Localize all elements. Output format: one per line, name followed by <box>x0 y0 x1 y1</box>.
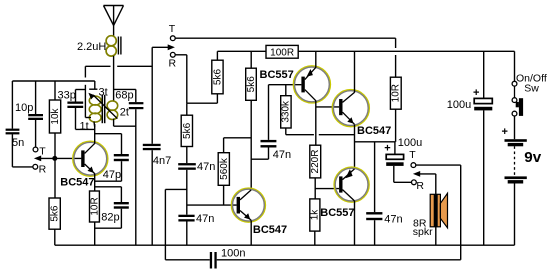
svg-text:560k: 560k <box>219 157 230 180</box>
resistor 10R (emitter) <box>89 191 100 245</box>
svg-text:4n7: 4n7 <box>153 155 171 167</box>
svg-text:BC547: BC547 <box>357 125 391 137</box>
svg-text:2.2uH: 2.2uH <box>77 41 106 53</box>
capacitor 47n (fourth) <box>366 142 402 245</box>
wire Q2 emitter to ground rail <box>250 221 252 246</box>
switch pole arrow (left changeover) <box>34 156 82 162</box>
svg-text:1t: 1t <box>80 121 89 133</box>
resistor 10R (output) <box>390 77 401 142</box>
svg-text:330k: 330k <box>281 100 292 123</box>
capacitor 47n (second) <box>178 213 214 245</box>
svg-text:2t: 2t <box>120 107 129 119</box>
svg-text:+: + <box>502 126 508 138</box>
svg-text:9v: 9v <box>524 149 541 166</box>
svg-text:47p: 47p <box>103 169 121 181</box>
wire Q3 emitter up to V+ rail <box>315 51 317 67</box>
svg-text:5k6: 5k6 <box>212 69 223 86</box>
resistor 5k6 (left bottom) <box>49 198 61 245</box>
wire Q1 emitter down to 10R <box>94 173 96 191</box>
wire pole down to antenna rail and 4n7 <box>151 47 153 144</box>
wire transformer secondary bottom to 68p line <box>114 119 136 127</box>
transistor Q2 BC547 <box>231 188 287 236</box>
transistor Q3 BC557 <box>260 66 331 103</box>
svg-text:R: R <box>416 180 424 192</box>
transformer T1 primary winding 3t <box>89 96 101 122</box>
svg-text:BC547: BC547 <box>253 224 287 236</box>
wire 220R/1k junction to Q5 base <box>315 188 339 190</box>
transistor Q5 BC557 <box>320 167 369 219</box>
resistor 100R <box>266 45 298 58</box>
svg-text:5n: 5n <box>12 137 24 149</box>
resistor 1k <box>310 199 321 245</box>
resistor 10k <box>49 81 61 198</box>
svg-text:BC547: BC547 <box>60 176 94 188</box>
capacitor 100u electrolytic (supply) <box>447 51 493 245</box>
node T (top changeover) <box>169 23 176 41</box>
capacitor 5n with stems <box>6 81 33 167</box>
wire top T rail <box>175 37 396 39</box>
wire top-left bias rail <box>12 80 94 82</box>
svg-text:spkr: spkr <box>413 226 433 238</box>
svg-text:5k6: 5k6 <box>50 205 61 222</box>
svg-text:47n: 47n <box>196 213 214 225</box>
wire antenna line down to transformer secondary (crosses antenna rail with hop) <box>113 56 115 101</box>
svg-text:47n: 47n <box>197 161 215 173</box>
svg-text:47n: 47n <box>273 149 291 161</box>
wire T rail drop to 10R (hop over V+ rail) <box>395 38 397 48</box>
svg-text:T: T <box>169 23 176 35</box>
svg-text:68p: 68p <box>115 90 133 102</box>
node R (left changeover) <box>33 164 47 176</box>
svg-text:10k: 10k <box>50 107 61 124</box>
wire T contact to audio rail <box>416 165 461 260</box>
svg-text:10p: 10p <box>15 102 33 114</box>
capacitor 33p <box>58 90 95 130</box>
transformer T1 tuning arrow <box>88 93 117 119</box>
capacitor 100n (series in audio rail) <box>210 247 246 268</box>
wire ground rail <box>55 244 515 246</box>
resistor 5k6 (second) <box>246 51 257 189</box>
wire antenna rail left of hop <box>85 65 110 67</box>
transistor Q4 BC547 <box>332 90 391 137</box>
svg-text:100u: 100u <box>447 99 471 111</box>
wire 68p bottom down to ground rail <box>135 109 137 245</box>
svg-text:5k6: 5k6 <box>246 76 257 93</box>
svg-text:Sw: Sw <box>524 83 539 95</box>
transformer T1 core <box>102 95 104 123</box>
svg-text:10R: 10R <box>89 197 100 215</box>
wire emitter output node to 10R bottom <box>355 141 396 143</box>
capacitor 10p with stems <box>15 81 43 147</box>
switch pole arrow (right changeover) <box>413 171 436 177</box>
wire lower audio rail (right part) <box>217 259 461 261</box>
resistor 560k <box>218 138 251 205</box>
antenna <box>104 6 124 36</box>
resistor 5k6 (first) <box>212 51 224 94</box>
transformer T1 secondary winding 2t <box>107 101 118 120</box>
junction dot <box>52 156 57 161</box>
svg-text:R: R <box>169 57 177 69</box>
node R (right changeover) <box>412 180 425 192</box>
capacitor 100u electrolytic (output coupling) <box>384 137 422 182</box>
svg-text:BC557: BC557 <box>320 207 354 219</box>
svg-text:100n: 100n <box>221 247 245 259</box>
resistor 330k <box>281 85 292 128</box>
svg-text:10R: 10R <box>390 84 401 102</box>
wire pole to speaker <box>435 174 437 194</box>
node T (left changeover) <box>33 145 46 157</box>
svg-text:5k6: 5k6 <box>182 122 193 139</box>
svg-text:100R: 100R <box>270 47 294 58</box>
transistor Q1 BC547 <box>60 141 108 188</box>
svg-text:82p: 82p <box>101 211 119 223</box>
svg-text:+: + <box>473 87 479 99</box>
capacitor 68p <box>115 90 143 110</box>
capacitor 82p with stems <box>95 187 129 228</box>
wire Q4 collector up to V+ rail <box>354 51 356 92</box>
switch pole arrow (top changeover) <box>152 44 175 50</box>
wire Q5 collector down to ground rail <box>354 201 356 245</box>
wire Q2 base <box>187 204 237 206</box>
transformer T1 primary top connection <box>89 81 97 89</box>
wire Q4 emitter down to Q5 emitter <box>354 125 356 169</box>
svg-text:T: T <box>39 145 46 157</box>
wire antenna rail right of hop <box>117 65 152 67</box>
speaker 8R <box>413 193 448 245</box>
wire R contact to 5k6 dividers <box>175 55 217 103</box>
svg-text:T: T <box>409 149 416 161</box>
svg-text:1k: 1k <box>310 209 321 221</box>
transformer T1 primary left return wire with tap 1t <box>85 66 94 127</box>
capacitor 47p with stems <box>95 134 129 182</box>
wire secondary top branch to 68p <box>114 89 136 102</box>
svg-text:+: + <box>384 143 390 155</box>
wire 330k bottom to emitter junction (hop over collector line) <box>286 128 355 135</box>
capacitor 4n7 with stems <box>143 144 171 245</box>
wire lower audio rail (left part) <box>165 259 209 261</box>
wire Q1 collector up to coil/33p junction <box>94 124 96 144</box>
svg-text:47n: 47n <box>384 214 402 226</box>
svg-text:100u: 100u <box>398 137 422 149</box>
battery 9v <box>502 116 542 245</box>
resistor 220R <box>310 145 321 199</box>
capacitor 47n (first) <box>178 147 215 173</box>
switch On/Off <box>512 51 547 116</box>
node R (top changeover) <box>169 52 177 69</box>
inductor L1 2.2uH <box>77 36 121 56</box>
svg-text:BC557: BC557 <box>260 69 294 81</box>
capacitor 47n (third) with stems <box>251 85 301 161</box>
wire Q3 collector to Q4 base <box>316 106 339 108</box>
wire 47n1 bottom to 47n2, with branch to audio rail <box>165 170 186 260</box>
svg-text:R: R <box>39 164 47 176</box>
wire Q3 collector down to 220R <box>315 101 317 146</box>
wire V+ rail <box>217 50 514 52</box>
svg-text:3t: 3t <box>99 87 108 99</box>
node T (right changeover) <box>409 149 416 168</box>
svg-text:220R: 220R <box>310 150 321 174</box>
resistor 5k6 (third, mid) <box>181 103 193 146</box>
